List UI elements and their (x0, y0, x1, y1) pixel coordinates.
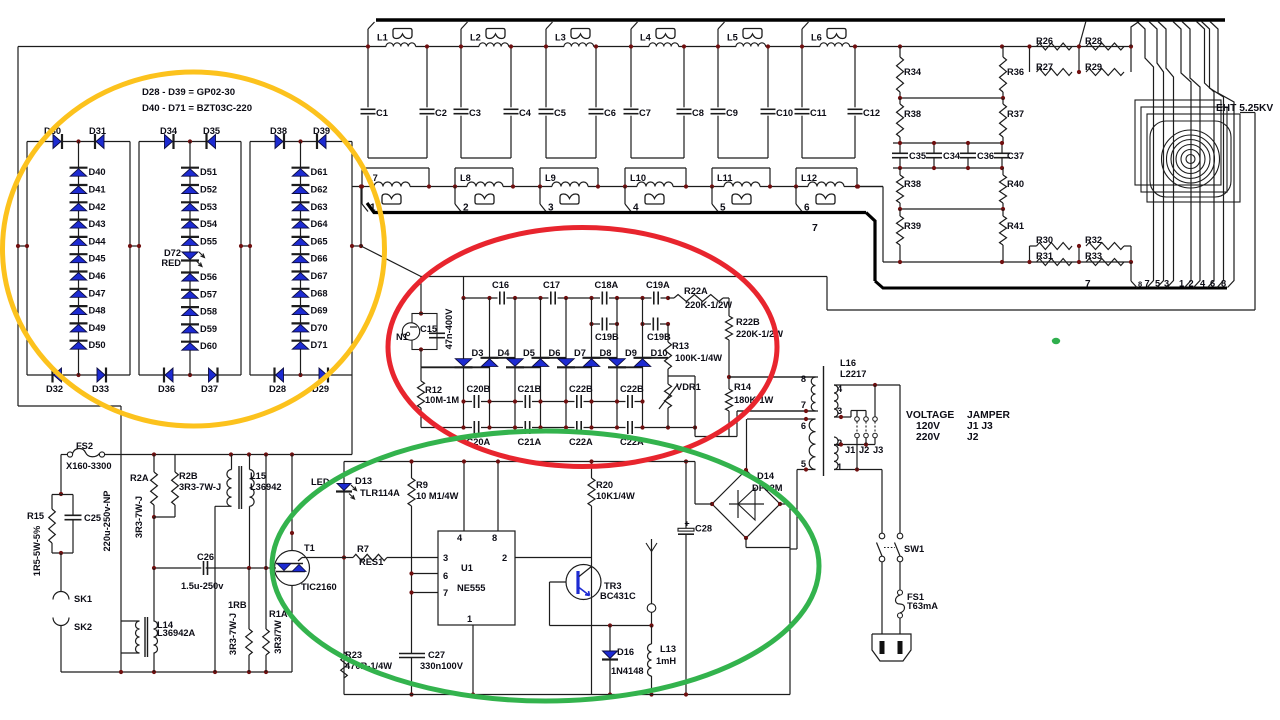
svg-text:5: 5 (1155, 279, 1160, 289)
svg-text:T1: T1 (304, 543, 315, 553)
svg-text:D61: D61 (311, 167, 328, 177)
capacitor C36 (967, 143, 969, 153)
wire pin6 stub (412, 573, 439, 575)
svg-text:C19B: C19B (595, 332, 619, 342)
resistor R26 (1037, 43, 1073, 50)
EHT pin fan wires (1137, 22, 1154, 288)
svg-text:7: 7 (443, 588, 448, 598)
svg-text:R7: R7 (357, 544, 369, 554)
svg-text:D52: D52 (200, 185, 217, 195)
svg-text:L3: L3 (555, 33, 566, 43)
svg-text:D69: D69 (311, 306, 328, 316)
svg-text:R2A: R2A (130, 473, 149, 483)
svg-text:N1: N1 (396, 332, 408, 342)
svg-text:C17: C17 (543, 280, 560, 290)
node 4 (bus tap) (624, 187, 626, 205)
transformer L16 primary winding 6-5 (809, 419, 815, 469)
svg-text:R22A: R22A (684, 286, 708, 296)
svg-text:330n100V: 330n100V (420, 661, 464, 671)
svg-text:5: 5 (801, 459, 806, 469)
diode D40 (70, 167, 88, 169)
svg-text:D48: D48 (89, 306, 106, 316)
svg-text:220K-1/2W: 220K-1/2W (685, 300, 732, 310)
wire pin4 lead (834, 384, 900, 386)
svg-text:D40 - D71 = BZT03C-220: D40 - D71 = BZT03C-220 (142, 103, 252, 114)
wire top feed line (18, 46, 368, 48)
capacitor C17 (549, 291, 558, 305)
capacitor C12 (854, 47, 856, 108)
svg-text:TR3: TR3 (604, 581, 622, 591)
diode D64 (292, 219, 310, 221)
wire diode row links (421, 366, 455, 368)
svg-text:L9: L9 (545, 173, 556, 183)
svg-text:D43: D43 (89, 219, 106, 229)
wire R34-R36 link (900, 97, 1003, 99)
svg-text:R26: R26 (1036, 36, 1053, 46)
crown symbol L3 (571, 29, 590, 39)
capacitor C19A (652, 291, 661, 305)
svg-text:D4: D4 (498, 348, 511, 358)
svg-text:D45: D45 (89, 254, 106, 264)
diode D10 (634, 357, 652, 359)
svg-text:J1: J1 (845, 445, 855, 455)
diode D48 (70, 305, 88, 307)
wire to bottom bus (1130, 262, 1132, 281)
inductor L9 (546, 157, 596, 159)
svg-text:D37: D37 (201, 384, 218, 394)
svg-text:R38: R38 (904, 179, 921, 189)
svg-text:R40: R40 (1007, 179, 1024, 189)
svg-text:R2B: R2B (179, 471, 198, 481)
diode D71 (292, 340, 310, 342)
triac T1 (291, 455, 293, 673)
svg-text:J2: J2 (859, 445, 869, 455)
varistor VDR1 (667, 376, 669, 384)
svg-text:D13: D13 (355, 476, 372, 486)
diode D63 (292, 201, 310, 203)
svg-text:X160-3300: X160-3300 (66, 461, 112, 471)
svg-text:R22B: R22B (736, 317, 760, 327)
diode D28 (273, 368, 275, 383)
svg-text:FS2: FS2 (76, 441, 93, 451)
diode D9 (608, 366, 626, 368)
diode section box 1 (27, 141, 130, 143)
svg-text:D66: D66 (311, 254, 328, 264)
svg-text:D44: D44 (89, 236, 107, 246)
switch SW1 (879, 533, 885, 539)
wire ladder input drop (360, 187, 362, 247)
svg-text:D32: D32 (46, 384, 63, 394)
diode D68 (292, 288, 310, 290)
resistor R14 (728, 377, 730, 389)
svg-text:D54: D54 (200, 219, 218, 229)
svg-text:C35: C35 (909, 151, 926, 161)
resistor R2A (153, 455, 155, 473)
svg-text:D62: D62 (311, 185, 328, 195)
svg-text:D31: D31 (89, 126, 106, 136)
thick bus top (net 7) (376, 18, 1225, 21)
svg-text:L16: L16 (840, 358, 856, 368)
resistor R32 (1086, 243, 1124, 250)
diode D6 (532, 357, 550, 359)
fuse FS1 (899, 562, 901, 590)
svg-text:2: 2 (1189, 279, 1194, 289)
svg-text:R15: R15 (27, 511, 44, 521)
wire 555 supply rail (344, 461, 695, 463)
svg-text:3R3/7W: 3R3/7W (273, 620, 283, 654)
svg-text:R34: R34 (904, 67, 922, 77)
diode D41 (70, 184, 88, 186)
svg-text:D8: D8 (600, 348, 612, 358)
svg-text:RED: RED (161, 258, 181, 268)
svg-text:1R5-5W-5%: 1R5-5W-5% (32, 525, 42, 576)
svg-text:L5: L5 (727, 33, 738, 43)
svg-text:L6: L6 (811, 33, 822, 43)
svg-text:TIC2160: TIC2160 (301, 582, 337, 592)
neon lamp N1 (420, 277, 422, 314)
svg-text:7: 7 (801, 400, 806, 410)
red highlight ellipse (388, 228, 777, 467)
inductor L4 (631, 22, 638, 29)
capacitor C21B (523, 395, 532, 408)
capacitor C35 (899, 143, 901, 153)
svg-text:J3: J3 (873, 445, 883, 455)
svg-text:D59: D59 (200, 324, 217, 334)
svg-text:SW1: SW1 (904, 544, 924, 554)
inductor L5 (718, 22, 725, 29)
capacitor C22A (575, 421, 584, 434)
svg-text:100K-1/4W: 100K-1/4W (675, 353, 722, 363)
crown symbol L9 (560, 194, 579, 204)
inductor L6 (802, 22, 809, 29)
diode D58 (181, 306, 199, 308)
wire R13 branch (668, 375, 695, 377)
wire SW1 to plug left (881, 562, 883, 634)
capacitor C11 (801, 47, 803, 108)
wire pin1 stub (472, 625, 474, 695)
node 6 (bus tap) (795, 187, 797, 205)
resistor R41 (1000, 216, 1007, 245)
svg-text:D28: D28 (269, 384, 286, 394)
svg-text:L15: L15 (250, 471, 266, 481)
svg-text:D64: D64 (311, 219, 329, 229)
box3 right edge extension (351, 375, 353, 455)
svg-text:C15: C15 (420, 324, 437, 334)
svg-text:R9: R9 (416, 480, 428, 490)
diode section box 2 (139, 141, 241, 143)
wire left border net (17, 47, 19, 407)
transformer L16 core (823, 366, 825, 476)
resistor R1A (265, 455, 267, 630)
diode D69 (292, 305, 310, 307)
svg-text:D67: D67 (311, 271, 328, 281)
resistor R28 (1086, 43, 1124, 50)
svg-text:C8: C8 (692, 108, 704, 118)
diode D35 (205, 134, 207, 149)
wire ladder bottom rail (352, 186, 883, 188)
svg-text:L4: L4 (640, 33, 652, 43)
svg-text:C12: C12 (863, 108, 880, 118)
diode D39 (316, 134, 318, 149)
diode D56 (181, 271, 199, 273)
svg-text:R29: R29 (1085, 62, 1102, 72)
svg-text:NE555: NE555 (457, 583, 485, 593)
LED D13 (336, 490, 352, 492)
jumper J3 (874, 385, 876, 417)
svg-text:C22B: C22B (620, 384, 644, 394)
svg-text:D57: D57 (200, 289, 217, 299)
capacitor C27 (399, 653, 425, 655)
diode D49 (70, 322, 88, 324)
svg-text:C6: C6 (604, 108, 616, 118)
wire 555 ground rail (344, 694, 790, 696)
svg-text:L11: L11 (717, 173, 733, 183)
resistor R7 (342, 555, 346, 559)
svg-text:C16: C16 (492, 280, 509, 290)
capacitor C8 (683, 47, 685, 108)
diode D61 (292, 167, 310, 169)
svg-text:8: 8 (1138, 280, 1142, 289)
crown symbol L4 (656, 29, 675, 39)
diode D62 (292, 184, 310, 186)
resistor R2B (174, 455, 176, 473)
wire multiplier node columns (463, 298, 465, 428)
diode D29 (327, 368, 329, 383)
diode D33 (105, 368, 107, 383)
svg-text:D46: D46 (89, 271, 106, 281)
wire pin1 lead (834, 469, 882, 471)
svg-text:1: 1 (1179, 279, 1184, 289)
diode D54 (181, 219, 199, 221)
diode D4 (481, 357, 499, 359)
wire R27 row (1029, 47, 1031, 73)
svg-text:120V: 120V (916, 421, 940, 432)
resistor R9 (408, 478, 415, 506)
svg-text:D50: D50 (89, 340, 106, 350)
diode D42 (70, 201, 88, 203)
capacitor C37 (1001, 143, 1003, 153)
wire pin7 jog (695, 436, 737, 438)
junction dots bottom right network (898, 260, 902, 264)
wire pin8 stub (497, 462, 499, 532)
svg-text:D41: D41 (89, 185, 106, 195)
svg-text:D68: D68 (311, 288, 328, 298)
resistor R22A (674, 295, 723, 302)
resistor R23 (341, 652, 348, 678)
diode D60 (181, 341, 199, 343)
wire multiplier top rail (464, 297, 669, 299)
wire bridge right arm (780, 503, 790, 505)
diode D3 (455, 366, 473, 368)
capacitor C1 (367, 47, 369, 108)
svg-text:C36: C36 (977, 151, 994, 161)
transformer L16 secondary winding 4-3 (834, 385, 838, 417)
resistor 1RB (248, 568, 250, 629)
svg-text:D38: D38 (270, 126, 287, 136)
svg-text:R39: R39 (904, 221, 921, 231)
crown symbol L12 (816, 194, 835, 204)
svg-text:C5: C5 (554, 108, 566, 118)
svg-text:10K1/4W: 10K1/4W (596, 491, 635, 501)
crown symbol L1 (393, 29, 412, 39)
yellow highlight ellipse (3, 72, 385, 426)
svg-text:+: + (684, 519, 689, 529)
svg-text:D3: D3 (472, 348, 484, 358)
svg-text:3: 3 (837, 406, 842, 416)
node 5 (bus tap) (711, 187, 713, 205)
svg-text:C27: C27 (428, 650, 445, 660)
capacitor C28 (685, 462, 687, 529)
diode D57 (181, 289, 199, 291)
svg-text:R30: R30 (1036, 235, 1053, 245)
svg-text:D63: D63 (311, 202, 328, 212)
resistor R30 (1037, 243, 1073, 250)
socket SK1 (60, 553, 62, 592)
svg-text:1mH: 1mH (656, 656, 676, 666)
svg-text:220u-250v-NP: 220u-250v-NP (102, 491, 112, 552)
svg-text:D42: D42 (89, 202, 106, 212)
crown symbol L8 (475, 194, 494, 204)
transformer L16 primary winding 8-7 (729, 376, 816, 378)
resistor R29 (1086, 69, 1124, 76)
svg-text:D55: D55 (200, 236, 217, 246)
svg-text:3R3-7W-J: 3R3-7W-J (228, 613, 238, 655)
svg-text:6: 6 (801, 421, 806, 431)
capacitor C21A (523, 421, 532, 434)
svg-text:L2: L2 (470, 33, 481, 43)
capacitor C2 (426, 47, 428, 108)
svg-text:47n-400V: 47n-400V (444, 308, 454, 350)
resistor R13 (665, 342, 672, 369)
wire T1 gate (298, 558, 302, 562)
wire ladder to resistor bank (858, 186, 883, 188)
resistor R38 (897, 104, 904, 137)
diode stack column 2 wire (189, 142, 191, 376)
svg-text:D40: D40 (89, 167, 106, 177)
svg-text:R14: R14 (734, 382, 752, 392)
resistor R20 (591, 462, 593, 479)
jumper J2 (865, 411, 867, 417)
svg-text:D71: D71 (311, 340, 328, 350)
svg-text:R20: R20 (596, 480, 613, 490)
diode D65 (292, 236, 310, 238)
svg-text:C26: C26 (197, 552, 214, 562)
resistor R34 (899, 47, 901, 58)
diode D37 (216, 368, 218, 383)
diode D44 (70, 236, 88, 238)
svg-text:JAMPER: JAMPER (967, 410, 1010, 421)
svg-text:C2: C2 (435, 108, 447, 118)
inductor L3 (546, 22, 553, 29)
rectifier bridge D14 (712, 470, 780, 538)
svg-text:D5: D5 (523, 348, 535, 358)
svg-text:C11: C11 (810, 108, 827, 118)
wire capacitor bank rails (893, 142, 1003, 144)
wire pin2 to collector (515, 557, 592, 559)
crown symbol L11 (732, 194, 751, 204)
capacitor C5 (545, 47, 547, 108)
LED D72 (181, 259, 199, 261)
svg-text:U1: U1 (461, 563, 473, 573)
svg-text:VOLTAGE: VOLTAGE (906, 410, 954, 421)
antenna electrode (651, 539, 653, 552)
svg-text:J1 J3: J1 J3 (967, 421, 993, 432)
capacitor C10 (767, 47, 769, 108)
crown symbol L7 (382, 194, 401, 204)
socket SK2 (53, 618, 69, 626)
svg-text:C21B: C21B (518, 384, 542, 394)
svg-text:D36: D36 (158, 384, 175, 394)
inductor L8 (461, 157, 511, 159)
svg-text:10M-1M: 10M-1M (425, 395, 459, 405)
wire TR3 base loop (550, 581, 567, 583)
diode D67 (292, 270, 310, 272)
svg-text:R27: R27 (1036, 62, 1053, 72)
capacitor C20B (472, 395, 481, 408)
diode D7 (557, 366, 575, 368)
svg-text:L2217: L2217 (840, 369, 866, 379)
fuse FS2 (67, 452, 72, 457)
svg-text:C25: C25 (84, 513, 101, 523)
svg-text:6: 6 (443, 571, 448, 581)
capacitor C6 (595, 47, 597, 108)
capacitor C22A (626, 421, 635, 434)
svg-text:6: 6 (1210, 279, 1215, 289)
node 1 (bus tap) (361, 187, 363, 205)
crown symbol L6 (827, 29, 846, 39)
svg-text:D72: D72 (164, 248, 181, 258)
svg-text:C22A: C22A (569, 437, 593, 447)
resistor R39 (897, 216, 904, 245)
wire FS2 row (61, 454, 67, 456)
svg-text:D33: D33 (92, 384, 109, 394)
diode D59 (181, 323, 199, 325)
svg-text:SK2: SK2 (74, 622, 92, 632)
svg-text:C4: C4 (519, 108, 532, 118)
inductor L13 (651, 626, 653, 645)
svg-text:1N4148: 1N4148 (611, 666, 644, 676)
diode D53 (181, 201, 199, 203)
svg-text:C1: C1 (376, 108, 388, 118)
resistor R22B (728, 298, 730, 316)
svg-text:D34: D34 (160, 126, 178, 136)
wire multiplier top feed (361, 246, 421, 277)
diode D46 (70, 270, 88, 272)
diode D5 (506, 366, 524, 368)
svg-text:7: 7 (1145, 279, 1150, 289)
svg-text:D9: D9 (625, 348, 637, 358)
svg-text:R38: R38 (904, 109, 921, 119)
wire pin8 lead (729, 376, 818, 378)
crown symbol L2 (486, 29, 505, 39)
capacitor C34 (933, 143, 935, 153)
diode D66 (292, 253, 310, 255)
crown symbol L10 (645, 194, 664, 204)
transformer L16 secondary winding 2-1 (834, 437, 838, 469)
green highlight ellipse (272, 431, 819, 701)
inductor L12 (802, 157, 855, 159)
inductor L7 (368, 157, 427, 159)
wire R38-R40 link (900, 208, 1003, 210)
capacitor C4 (510, 47, 512, 108)
svg-text:D51: D51 (200, 167, 217, 177)
wire multiplier rail stub (463, 277, 465, 299)
svg-text:L1: L1 (377, 33, 388, 43)
svg-text:D53: D53 (200, 202, 217, 212)
svg-text:1: 1 (467, 614, 472, 624)
svg-text:J2: J2 (967, 432, 979, 443)
diode D30 (61, 134, 63, 149)
